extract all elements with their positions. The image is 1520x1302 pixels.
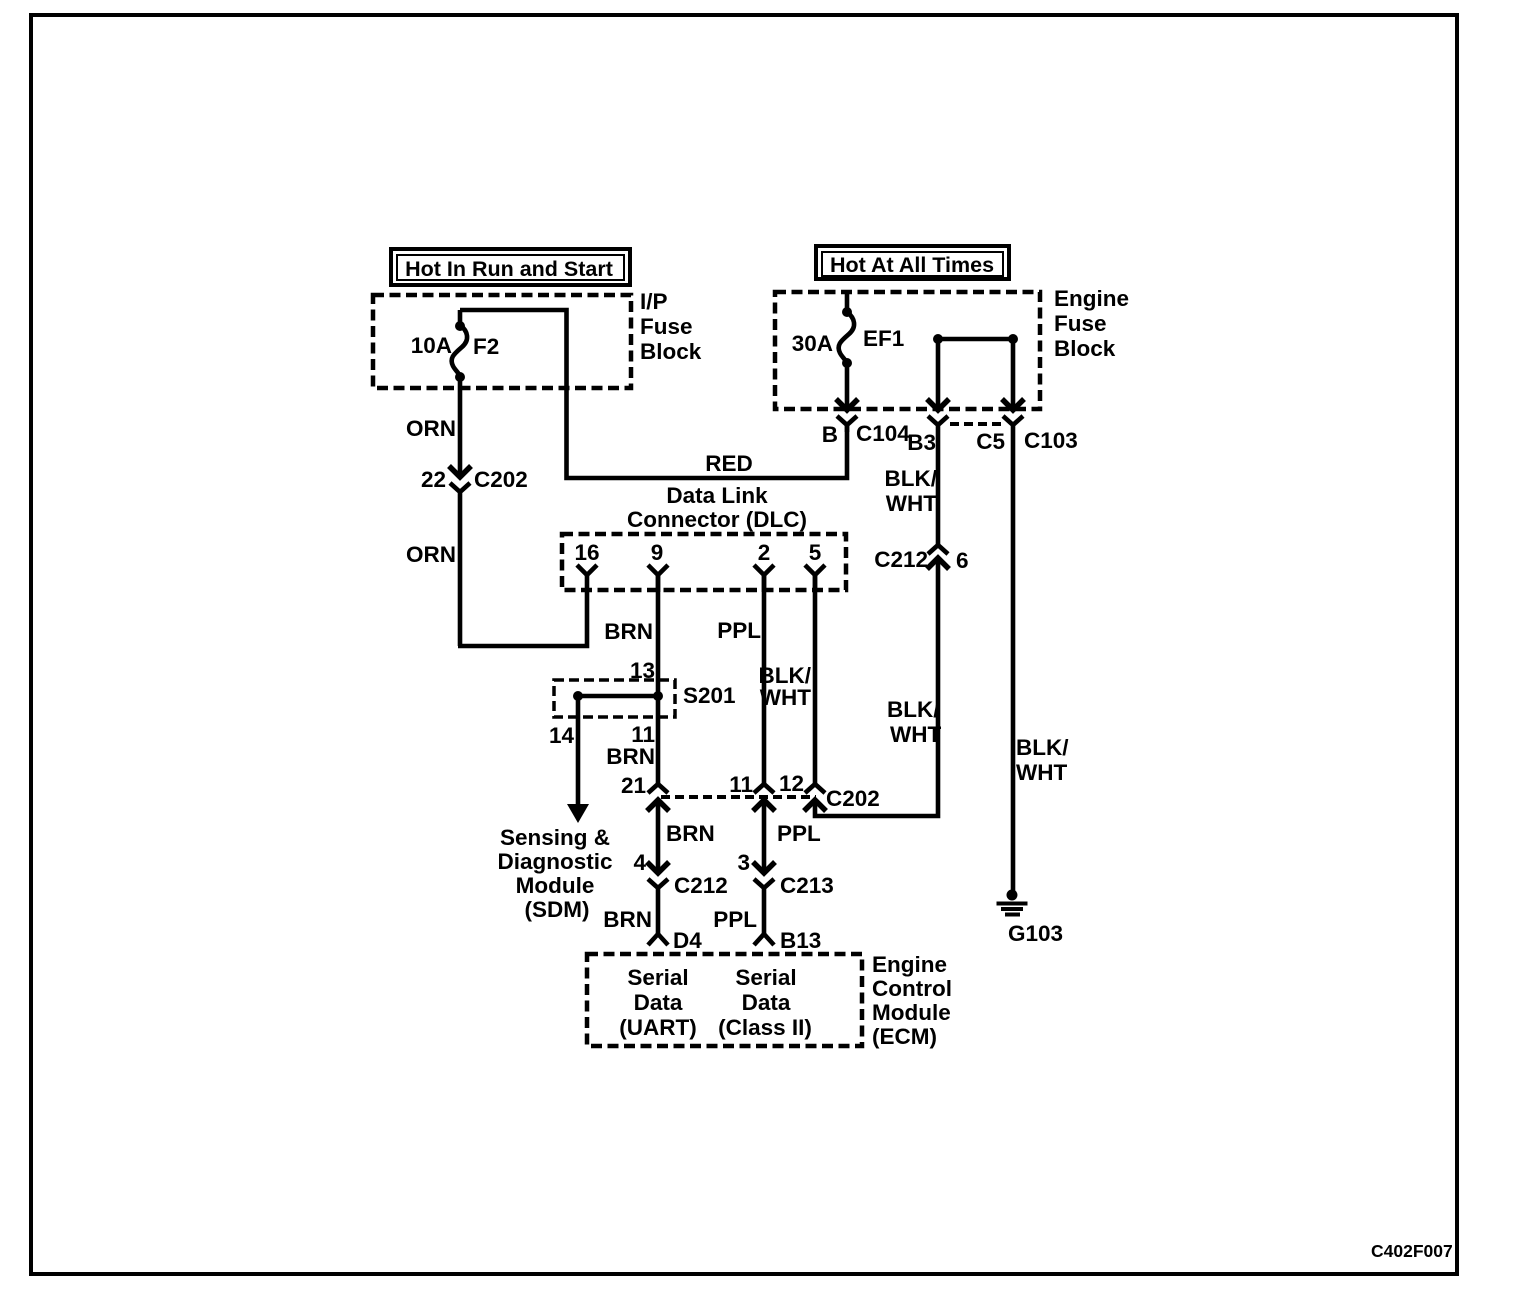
Engine Fuse Block box [775,286,1129,409]
connector C103 pin B3 [907,399,949,455]
wire BRN: C202 pin 21 to C212 pin 4 [633,801,714,875]
svg-text:Connector (DLC): Connector (DLC) [627,507,807,532]
svg-text:BRN: BRN [666,821,715,846]
wire BRN: DLC pin 9 to S201 [604,575,658,696]
svg-text:BRN: BRN [604,619,653,644]
svg-text:(SDM): (SDM) [525,897,590,922]
svg-text:11: 11 [729,772,753,797]
svg-text:21: 21 [621,773,646,798]
svg-text:PPL: PPL [777,821,821,846]
wire BRN: S201 pin 11 to C202 pin 21 [606,696,658,784]
splice S201 [554,680,736,717]
svg-text:PPL: PPL [717,618,761,643]
svg-text:Data: Data [634,990,683,1015]
svg-text:Data: Data [742,990,791,1015]
svg-text:C104: C104 [856,421,910,446]
wire ORN: C202 to DLC pin 16 [406,500,587,646]
svg-text:Block: Block [640,339,702,364]
svg-text:16: 16 [574,540,599,565]
svg-text:Module: Module [872,1000,951,1025]
svg-text:WHT: WHT [886,491,937,516]
node Sensing & Diagnostic Module (SDM) [497,825,612,922]
svg-text:F2: F2 [473,334,499,359]
svg-text:22: 22 [421,467,446,492]
connector C213 pin 3 [754,873,834,934]
svg-text:Data Link: Data Link [666,483,768,508]
svg-text:WHT: WHT [1016,760,1067,785]
svg-text:(ECM): (ECM) [872,1024,937,1049]
svg-text:I/P: I/P [640,289,668,314]
svg-text:RED: RED [705,451,753,476]
label "Hot At All Times" [816,246,1009,279]
svg-text:Fuse: Fuse [1054,311,1107,336]
connector C202 pin 12 [779,771,826,811]
svg-text:Diagnostic: Diagnostic [497,849,612,874]
DLC pin 2 [754,540,774,592]
svg-text:C5: C5 [976,429,1005,454]
svg-text:B3: B3 [907,430,936,455]
connector C103 pin C5 [976,399,1078,454]
svg-text:BLK/: BLK/ [887,697,940,722]
svg-text:C202: C202 [826,786,880,811]
label "Hot In Run and Start" [391,249,630,285]
connector ECM pin D4 [648,928,702,953]
DLC pin 9 [648,540,668,592]
svg-text:BLK/: BLK/ [885,466,938,491]
svg-text:Hot In Run and Start: Hot In Run and Start [405,257,613,281]
wire PPL: C202 pin 11 to C213 pin 3 [737,801,821,875]
wire PPL: DLC pin 2 to C202 pin 11 [717,575,764,784]
svg-text:BRN: BRN [606,744,655,769]
wire BLK/WHT: DLC pin 5 to C202 pin 12 [759,575,816,784]
svg-text:Hot At All Times: Hot At All Times [830,253,994,277]
wire RED: F2 top to C104 B [460,310,847,478]
svg-text:WHT: WHT [890,722,941,747]
svg-text:Serial: Serial [735,965,796,990]
connector C202 pin 21 [621,773,669,811]
svg-text:ORN: ORN [406,416,456,441]
svg-text:C212: C212 [674,873,728,898]
svg-text:30A: 30A [792,331,833,356]
Data Link Connector box [562,483,846,590]
svg-text:S201: S201 [683,683,736,708]
svg-text:BLK/: BLK/ [1016,735,1069,760]
svg-text:Serial: Serial [627,965,688,990]
svg-text:Engine: Engine [872,952,947,977]
connector C104 pin B [822,399,911,447]
svg-text:BRN: BRN [603,907,652,932]
svg-text:Block: Block [1054,336,1116,361]
wire: S201 pin 14 to SDM [549,696,589,823]
svg-text:ORN: ORN [406,542,456,567]
svg-text:9: 9 [651,540,664,565]
connector C212 pin 6 [874,545,968,573]
svg-text:4: 4 [633,850,646,875]
svg-text:Control: Control [872,976,952,1001]
wire BLK/WHT: B3 to C212 pin 6 [885,432,939,545]
fuse F2 10A [411,310,500,382]
svg-text:B13: B13 [780,928,821,953]
svg-text:2: 2 [758,540,771,565]
fuse EF1 30A [792,290,905,407]
svg-text:B: B [822,422,838,447]
svg-text:WHT: WHT [760,685,811,710]
wire jumper in Engine Fuse Block [933,334,1018,407]
connector C103 dashed line [950,422,1003,426]
wire BLK/WHT: C103 C5 to ground G103 [1013,432,1069,895]
svg-text:C402F007: C402F007 [1371,1241,1453,1261]
connector C202 pin 11 [729,772,775,811]
svg-text:14: 14 [549,723,575,748]
I/P Fuse Block box [373,289,702,388]
svg-text:Sensing &: Sensing & [500,825,610,850]
svg-text:EF1: EF1 [863,326,904,351]
svg-text:C213: C213 [780,873,834,898]
wire BLK/WHT: C212 pin 6 to C202 pin 12 [815,558,941,816]
svg-text:(Class II): (Class II) [718,1015,812,1040]
DLC pin 16 [574,540,599,575]
svg-text:12: 12 [779,771,804,796]
connector ECM pin B13 [754,928,821,953]
svg-text:3: 3 [737,850,750,875]
svg-text:Engine: Engine [1054,286,1129,311]
wire ORN: F2 to C202 pin 22 [406,377,460,474]
svg-text:D4: D4 [673,928,702,953]
svg-text:PPL: PPL [713,907,757,932]
svg-text:C103: C103 [1024,428,1078,453]
svg-text:C212: C212 [874,547,928,572]
svg-text:Fuse: Fuse [640,314,693,339]
connector C212 pin 4 [648,873,728,934]
svg-text:6: 6 [956,548,969,573]
Engine Control Module box [587,952,952,1049]
svg-text:5: 5 [809,540,822,565]
svg-text:G103: G103 [1008,921,1063,946]
DLC pin 5 [805,540,825,592]
svg-text:10A: 10A [411,333,452,358]
connector C202 pin 22 [421,466,528,500]
svg-text:Module: Module [516,873,595,898]
svg-text:C202: C202 [474,467,528,492]
ground G103 [997,890,1064,947]
svg-text:(UART): (UART) [619,1015,696,1040]
connector C202 dashed line [661,795,816,799]
